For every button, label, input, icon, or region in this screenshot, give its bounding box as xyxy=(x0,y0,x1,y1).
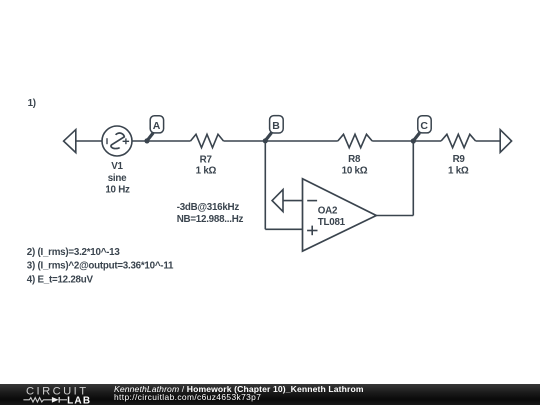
svg-text:TL081: TL081 xyxy=(318,217,346,228)
op-amp OA2 xyxy=(303,179,377,251)
wire R9 to output port xyxy=(476,140,501,142)
wire port to op-amp - input xyxy=(284,200,303,202)
svg-text:R7: R7 xyxy=(200,155,213,166)
output port arrow xyxy=(500,130,511,153)
node A xyxy=(144,116,163,144)
wire port to V1 xyxy=(76,140,102,142)
svg-text:4) E_t=12.28uV: 4) E_t=12.28uV xyxy=(27,274,94,285)
svg-text:OA2: OA2 xyxy=(318,206,338,217)
CircuitLab logo xyxy=(0,384,110,405)
wire op-amp output xyxy=(376,215,413,217)
svg-text:V1: V1 xyxy=(111,161,123,172)
wire V1 to R7 xyxy=(132,140,191,142)
wire feedback up to node C xyxy=(412,141,414,216)
resistor R8 xyxy=(338,134,372,147)
svg-text:C: C xyxy=(420,120,428,132)
svg-text:NB=12.988...Hz: NB=12.988...Hz xyxy=(177,214,244,225)
resistor R7 xyxy=(191,134,224,147)
svg-text:B: B xyxy=(272,120,280,132)
footer bar xyxy=(0,384,540,405)
svg-text:2) (I_rms)=3.2*10^-13: 2) (I_rms)=3.2*10^-13 xyxy=(27,247,121,258)
wire R7 to node B xyxy=(224,140,266,142)
wire node C to R9 xyxy=(413,140,441,142)
svg-text:10 kΩ: 10 kΩ xyxy=(342,165,368,176)
resistor R9 xyxy=(441,134,476,147)
svg-text:3) (I_rms)^2@output=3.36*10^-1: 3) (I_rms)^2@output=3.36*10^-11 xyxy=(27,261,174,272)
wire node B down xyxy=(264,141,266,229)
svg-text:10 Hz: 10 Hz xyxy=(105,185,130,196)
inverting input port arrow xyxy=(272,190,283,212)
svg-text:R9: R9 xyxy=(453,154,466,165)
svg-text:1): 1) xyxy=(28,98,36,109)
svg-text:sine: sine xyxy=(108,173,127,184)
node B xyxy=(263,116,284,144)
svg-text:-3dB@316kHz: -3dB@316kHz xyxy=(177,202,240,213)
svg-text:1 kΩ: 1 kΩ xyxy=(196,166,217,177)
footer title and url xyxy=(114,385,364,394)
wire R8 to node C xyxy=(372,140,413,142)
svg-text:A: A xyxy=(153,120,161,132)
wire to op-amp + input xyxy=(265,228,302,230)
svg-text:1 kΩ: 1 kΩ xyxy=(448,165,469,176)
input port arrow xyxy=(64,130,76,153)
svg-text:R8: R8 xyxy=(348,154,361,165)
node C xyxy=(411,116,432,144)
wire node B to R8 xyxy=(265,140,338,142)
voltage source V1 xyxy=(102,126,132,156)
svg-text:LAB: LAB xyxy=(67,395,91,405)
